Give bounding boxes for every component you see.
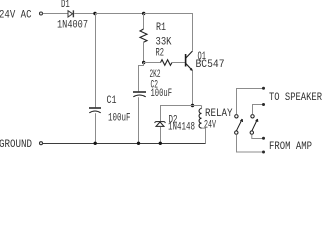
svg-text:BC547: BC547 (196, 59, 225, 71)
wire contact 2 to speaker terminal (253, 105, 264, 115)
wire node A to node B (95, 13, 144, 15)
svg-text:R2: R2 (156, 47, 165, 59)
svg-text:100uF: 100uF (108, 112, 131, 124)
terminal from amp 2 (262, 151, 265, 154)
relay pivot 2 circle (250, 131, 253, 134)
wire C1 to ground rail (95, 113, 97, 143)
terminal 24V AC input (40, 12, 43, 15)
svg-text:TO SPEAKER: TO SPEAKER (269, 92, 322, 104)
svg-text:R1: R1 (156, 22, 166, 34)
junction node C (R1/R2/C2) (142, 61, 145, 64)
svg-text:C1: C1 (107, 95, 117, 107)
svg-text:RELAY: RELAY (205, 108, 233, 120)
resistor R2 (144, 60, 186, 66)
svg-text:FROM AMP: FROM AMP (269, 141, 312, 153)
terminal from amp 1 (262, 137, 265, 140)
wire Q1 emitter down to node E (192, 71, 194, 106)
wire D1 cathode to node A (74, 13, 95, 15)
wire D2 anode to ground rail (160, 127, 162, 144)
diode D1 (68, 10, 73, 17)
junction node A (top of C1) (93, 12, 96, 15)
svg-text:1N4007: 1N4007 (57, 19, 88, 31)
relay pivot 1 circle (235, 131, 238, 134)
svg-text:100uF: 100uF (151, 88, 173, 100)
wire node C jog down to C2 (139, 63, 144, 92)
junction node E (emitter/D2/relay) (191, 104, 194, 107)
capacitor C1 (89, 108, 101, 113)
relay armature 1 (236, 119, 242, 131)
relay coil K1 (199, 106, 201, 129)
terminal to speaker 1 (262, 87, 265, 90)
junction C1 at ground rail (94, 142, 97, 145)
wire pivot 1 to amp terminal (237, 134, 264, 152)
svg-text:1N4148: 1N4148 (168, 121, 195, 133)
svg-text:GROUND: GROUND (0, 139, 32, 151)
wire D2 top corner down (160, 106, 162, 122)
relay contact 1 fixed circle (235, 115, 238, 118)
terminal GROUND (40, 142, 43, 145)
junction C2 at ground rail (137, 142, 140, 145)
wire terminal to D1 anode (43, 13, 68, 15)
junction D2 at ground rail (159, 142, 162, 145)
relay armature 2 (252, 119, 258, 131)
svg-text:24V AC: 24V AC (0, 10, 32, 22)
svg-text:D1: D1 (61, 0, 70, 11)
wire node B to top right corner (144, 14, 193, 51)
wire node A down to C1 (95, 14, 97, 108)
terminal to speaker 2 (262, 103, 265, 106)
transistor Q1 (186, 51, 193, 71)
resistor R1 (140, 14, 147, 63)
diode D2 (155, 122, 166, 127)
wire relay coil bottom to ground rail (202, 128, 206, 143)
wire pivot 2 to amp terminal (252, 134, 263, 138)
junction node B (top of R1) (142, 12, 145, 15)
relay contact 2 fixed circle (251, 115, 254, 118)
ground rail wire (43, 143, 206, 145)
svg-text:24V: 24V (204, 119, 216, 131)
wire contact 1 to speaker terminal (237, 89, 264, 115)
wire node E horizontal (160, 105, 202, 107)
wire C2 to ground rail (138, 97, 140, 143)
capacitor C2 (133, 92, 146, 97)
